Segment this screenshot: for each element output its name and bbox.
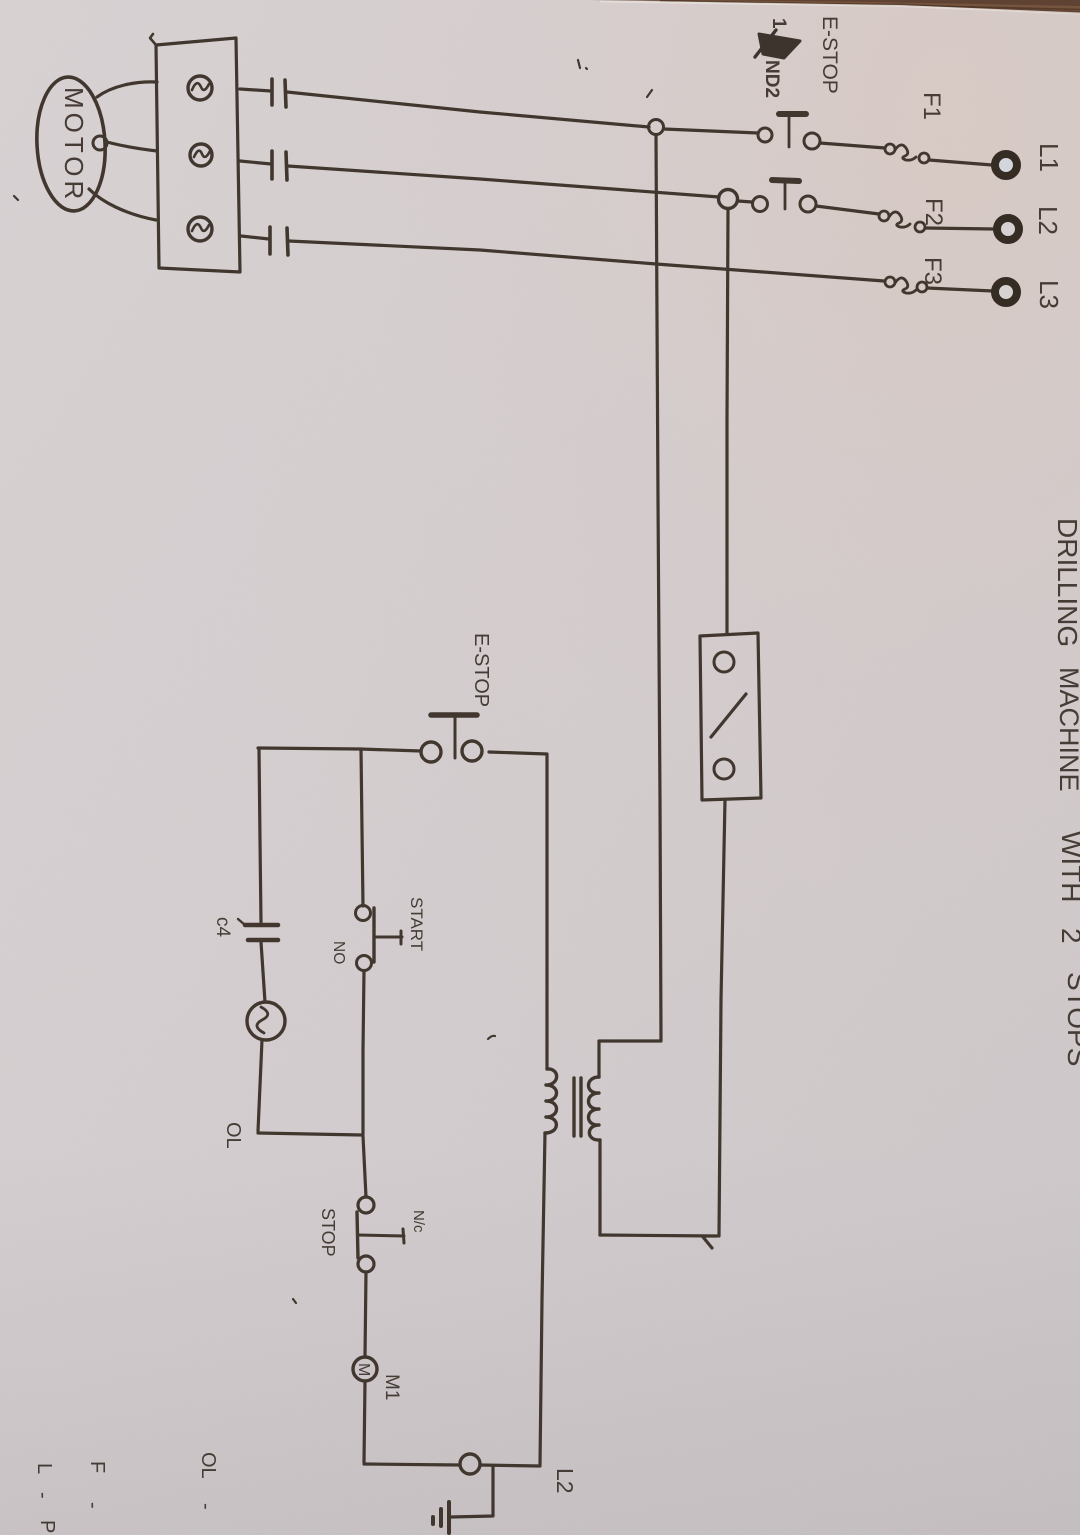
svg-text:L1: L1 bbox=[1034, 143, 1064, 172]
svg-text:STOPS: STOPS bbox=[1062, 972, 1080, 1066]
wire fuse F3 to terminal L3 bbox=[927, 288, 993, 291]
wire corner down to C4 bbox=[259, 749, 261, 922]
wire disconnect to bottom jog bbox=[719, 800, 725, 1236]
wire motor to OL heater 3 bbox=[89, 189, 156, 220]
contactor coil M1 bbox=[353, 1357, 377, 1381]
wire row3 to fuse F3 bbox=[289, 241, 884, 281]
svg-text:L2: L2 bbox=[1033, 206, 1063, 235]
svg-text:F: F bbox=[86, 1461, 108, 1473]
stop button NC bbox=[358, 1197, 374, 1213]
disconnect contact top bbox=[714, 652, 734, 672]
svg-text:N/c: N/c bbox=[410, 1210, 427, 1233]
terminal L1 bbox=[995, 154, 1017, 176]
wire dropper from L2 tap to disconnect bbox=[727, 209, 728, 634]
wire row1 to tap node bbox=[287, 92, 649, 127]
wire OL block to contact M1a bbox=[240, 89, 271, 91]
wire E-stop to transformer secondary top bbox=[489, 752, 547, 1069]
transformer primary winding bbox=[589, 1077, 601, 1140]
overload relay block bbox=[156, 38, 240, 272]
wire L2 rail bottom bbox=[364, 1464, 460, 1465]
svg-text:MOTOR: MOTOR bbox=[59, 87, 89, 203]
svg-text:MACHINE: MACHINE bbox=[1054, 667, 1080, 792]
wire OL junction horizontal bbox=[258, 1133, 362, 1135]
wire junction START branch bbox=[361, 749, 363, 906]
wire main down to stop bbox=[363, 1136, 366, 1197]
transformer core bbox=[572, 1078, 575, 1136]
svg-text:-: - bbox=[195, 1503, 217, 1510]
OL heater 2 bbox=[190, 144, 212, 166]
svg-text:-: - bbox=[32, 1492, 54, 1499]
svg-text:c4: c4 bbox=[212, 917, 233, 938]
wire primary bottom bbox=[598, 1140, 601, 1235]
svg-text:L3: L3 bbox=[1034, 280, 1064, 309]
svg-text:E-STOP: E-STOP bbox=[470, 633, 492, 707]
wire jog to primary top bbox=[599, 1041, 661, 1077]
wire E-stop left to corner bbox=[258, 748, 421, 751]
svg-text:P: P bbox=[36, 1520, 58, 1533]
wire fuse F2 to terminal L2 bbox=[925, 228, 994, 229]
contactor main contact bars row3 bbox=[268, 227, 272, 254]
wire tap to E-stop row2 bbox=[738, 201, 752, 202]
wire coil down to L2 rail bbox=[364, 1381, 365, 1462]
OL heater 3 bbox=[188, 217, 212, 241]
svg-text:WITH: WITH bbox=[1056, 831, 1080, 903]
terminal L2 bbox=[997, 218, 1019, 240]
OL heater 1 bbox=[188, 76, 212, 100]
fuse F2 bbox=[879, 211, 889, 221]
motor M bbox=[34, 75, 109, 212]
terminal L3 bbox=[995, 281, 1017, 303]
E-stop contact row1 bbox=[758, 128, 772, 142]
contactor main contact bars row1 bbox=[270, 79, 274, 105]
svg-text:M1: M1 bbox=[381, 1374, 402, 1400]
node tap L2 bbox=[719, 190, 738, 209]
wire contact row3 bbox=[241, 236, 269, 239]
wire start to junction bbox=[363, 971, 364, 1134]
wire dropper from L1 tap down to transformer primary bbox=[656, 135, 661, 1040]
stray pen marks bbox=[578, 60, 587, 69]
wire secondary bottom down to L2 rail bbox=[540, 1133, 545, 1465]
svg-text:1: 1 bbox=[768, 18, 789, 29]
ground symbol bbox=[447, 1502, 451, 1533]
svg-text:F1: F1 bbox=[918, 92, 945, 120]
wire stop to coil bbox=[365, 1272, 366, 1357]
motor terminal node bbox=[93, 136, 107, 150]
wire motor to OL heater 2 bbox=[107, 142, 157, 151]
svg-text:DRILLING: DRILLING bbox=[1052, 518, 1080, 647]
wire rail node to corner bbox=[480, 1465, 540, 1466]
svg-text:L2: L2 bbox=[552, 1468, 578, 1494]
disconnect blade bbox=[711, 694, 746, 737]
wire lamp down bbox=[258, 1040, 262, 1131]
svg-text:OL: OL bbox=[222, 1122, 244, 1149]
svg-text:F2: F2 bbox=[920, 198, 947, 226]
contactor main contact bars row2 bbox=[270, 151, 274, 179]
E-stop control button bbox=[421, 742, 441, 762]
transformer secondary winding bbox=[545, 1069, 557, 1133]
contact C4 plates bbox=[245, 923, 278, 928]
wire ground stem bbox=[451, 1467, 493, 1517]
svg-text:ND2: ND2 bbox=[761, 60, 782, 98]
wire bottom jog to disconnect leg bbox=[600, 1235, 717, 1248]
svg-text:E-STOP: E-STOP bbox=[818, 16, 841, 94]
wire motor to OL heater 1 bbox=[97, 82, 157, 97]
wood table strip top right bbox=[590, 0, 1080, 14]
disconnect switch box bbox=[700, 633, 761, 800]
start button NO bbox=[356, 906, 371, 921]
svg-text:OL: OL bbox=[197, 1452, 219, 1479]
svg-text:NO: NO bbox=[330, 941, 347, 964]
svg-text:2: 2 bbox=[1056, 928, 1080, 944]
wire row1 to fuse F1 bbox=[820, 143, 885, 148]
node tap L1 bbox=[649, 120, 664, 135]
wire fuse F1 to terminal L1 bbox=[929, 160, 992, 165]
svg-text:STOP: STOP bbox=[318, 1208, 338, 1257]
wire row2 to tap node bbox=[288, 166, 719, 197]
wire row2 to fuse F2 bbox=[816, 206, 879, 214]
svg-text:L: L bbox=[33, 1463, 55, 1474]
pilot lamp bbox=[247, 1002, 285, 1040]
svg-text:-: - bbox=[82, 1502, 104, 1509]
wire contact M1b row2 bbox=[240, 161, 271, 164]
scribble blob over A bbox=[759, 34, 800, 58]
fuse F1 bbox=[885, 144, 895, 154]
wire row1 tap to E-stop contact bbox=[664, 129, 758, 133]
svg-text:F3: F3 bbox=[919, 257, 946, 285]
svg-text:START: START bbox=[407, 897, 426, 951]
node on L2 rail bbox=[460, 1454, 480, 1474]
wire C4 to pilot lamp bbox=[261, 942, 265, 1002]
E-stop contact row2 bbox=[753, 197, 768, 212]
disconnect contact bottom bbox=[714, 759, 734, 779]
svg-text:M: M bbox=[355, 1363, 372, 1376]
fuse F3 bbox=[885, 277, 895, 287]
